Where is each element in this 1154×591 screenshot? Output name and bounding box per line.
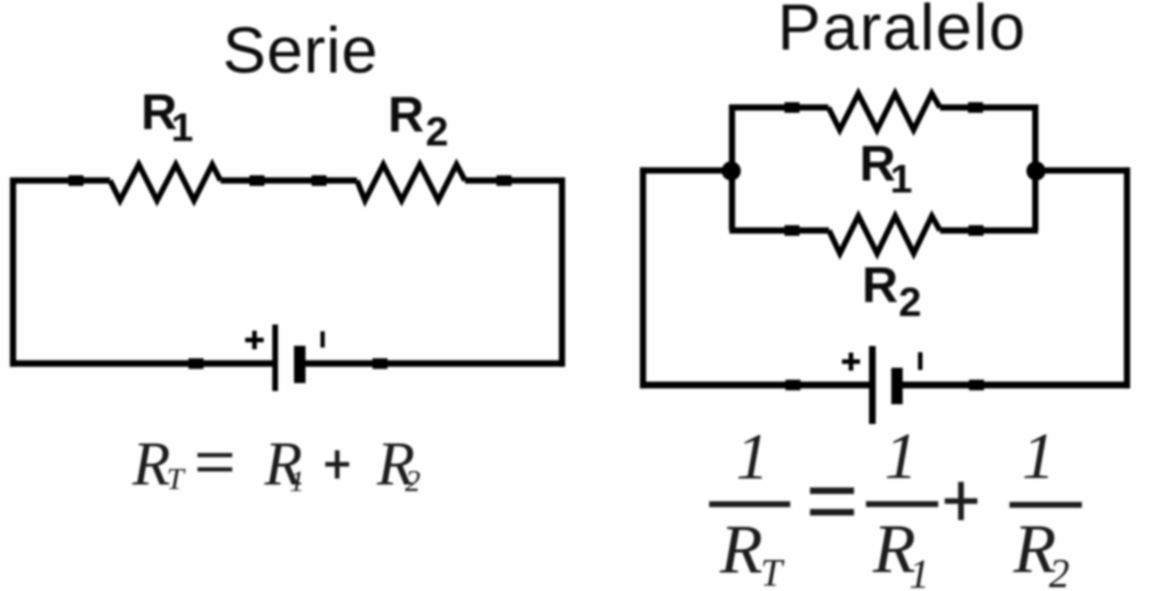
resistor R2 zigzag (parallel) — [829, 216, 940, 254]
wire: series bottom-right horizontal — [299, 360, 565, 367]
battery B1 current label I (series) — [321, 331, 325, 347]
svg-text:T: T — [761, 552, 785, 591]
svg-text:R: R — [132, 431, 171, 499]
svg-text:1: 1 — [909, 551, 930, 591]
svg-text:Paralelo: Paralelo — [778, 0, 1027, 64]
wire: parallel middle-left horizontal — [640, 167, 731, 173]
battery B2 negative plate (parallel) — [891, 368, 902, 404]
svg-text:R1: R1 — [141, 84, 193, 150]
wire: series top-right horizontal — [465, 177, 565, 183]
wire: parallel R2 branch right horizontal — [940, 227, 1038, 233]
junction dot (parallel top branch left) — [785, 102, 800, 113]
wire: parallel left outer vertical — [640, 167, 646, 388]
junction dot (parallel bottom right) — [969, 380, 984, 391]
junction dot (parallel R2 branch left) — [785, 225, 800, 236]
junction dot (parallel top branch right) — [968, 102, 983, 113]
wire: parallel right riser vertical — [1032, 105, 1038, 231]
node B (parallel right junction) — [1026, 161, 1045, 180]
junction dot (series top, right of R1) — [250, 175, 265, 186]
wire: series bottom-left horizontal — [10, 360, 275, 367]
battery B2 positive plate (parallel) — [869, 346, 876, 424]
junction dot (series top, left of R1) — [69, 175, 84, 186]
junction dot (series bottom right) — [373, 358, 388, 369]
wire: parallel bottom-left horizontal — [640, 382, 870, 389]
fraction 1/R2 bar — [1010, 502, 1082, 508]
junction dot (parallel bottom left) — [786, 380, 801, 391]
wire: series right vertical — [559, 178, 565, 367]
equals sign — [198, 453, 233, 457]
formula 1/RT = 1/R1 + 1/R2 — [709, 420, 1082, 591]
svg-text:R1: R1 — [860, 136, 913, 202]
junction dot (parallel R2 branch right) — [969, 225, 984, 236]
wire: parallel middle-right horizontal — [1036, 167, 1130, 173]
svg-text:1: 1 — [736, 421, 769, 494]
svg-text:Serie: Serie — [223, 14, 379, 87]
battery B2 current label I (parallel) — [918, 352, 923, 370]
wire: series loop left vertical — [10, 178, 16, 367]
battery B2 plus sign (parallel) — [842, 359, 860, 364]
wire: parallel R2 branch left horizontal — [730, 227, 830, 233]
svg-text:T: T — [167, 461, 187, 496]
node A (parallel left junction) — [722, 161, 741, 180]
svg-text:1: 1 — [1022, 420, 1055, 493]
svg-text:R2: R2 — [388, 87, 448, 155]
junction dot (series bottom left) — [189, 358, 204, 369]
resistor R1 zigzag (series) — [110, 165, 221, 201]
plus sign — [945, 498, 978, 504]
equals sign — [810, 488, 854, 495]
fraction 1/R1 bar — [866, 501, 938, 507]
fraction 1/RT bar — [709, 501, 790, 507]
plus sign — [325, 462, 349, 467]
battery B1 positive plate (series) — [272, 325, 278, 392]
battery B1 plus sign (series) — [245, 338, 264, 343]
svg-text:1: 1 — [885, 420, 918, 493]
svg-text:2: 2 — [1049, 550, 1070, 591]
wire: parallel right outer vertical — [1124, 167, 1130, 388]
junction dot (series top, left of R2) — [312, 175, 327, 186]
wire: series top-middle horizontal — [221, 177, 358, 183]
resistor R1 zigzag (parallel) — [829, 93, 941, 130]
junction dot (series top, right of R2) — [497, 175, 512, 186]
svg-text:1: 1 — [290, 465, 305, 498]
wire: parallel top branch right horizontal — [940, 104, 1038, 110]
resistor R2 zigzag (series) — [357, 165, 465, 201]
svg-text:R: R — [719, 512, 763, 589]
battery B1 negative plate (series) — [294, 346, 306, 383]
wire: parallel left riser vertical — [729, 105, 735, 231]
wire: parallel top branch left horizontal — [730, 104, 829, 110]
svg-text:2: 2 — [405, 463, 421, 498]
svg-text:R2: R2 — [862, 257, 921, 325]
formula RT = R1 + R2 — [132, 431, 421, 499]
wire: series top-left horizontal — [10, 177, 110, 183]
wire: parallel bottom-right horizontal — [902, 382, 1130, 389]
